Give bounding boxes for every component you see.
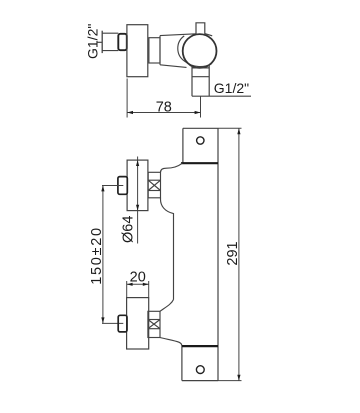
knob back rim arc	[178, 36, 212, 67]
dim Ø64 line	[137, 157, 139, 244]
svg-text:Ø64: Ø64	[121, 216, 137, 243]
lower knob cap	[118, 315, 127, 332]
dim 78 arrow left	[127, 111, 133, 114]
dim 150±20 arrow bottom	[101, 317, 104, 323]
top knob cap	[118, 177, 127, 195]
body profile tab to top connector	[161, 163, 183, 172]
svg-text:78: 78	[156, 100, 172, 116]
body collar	[149, 38, 160, 63]
bar top edge	[183, 127, 218, 129]
dim 78 extension right	[200, 97, 202, 118]
lower tab top shadow edge	[182, 345, 218, 347]
dim 78 extension left	[126, 79, 128, 118]
inlet port square P1	[102, 31, 118, 53]
svg-text:G1/2": G1/2"	[85, 24, 101, 59]
dim Ø64 arrow bottom	[136, 205, 139, 211]
body profile top connector to bar	[161, 198, 174, 300]
top union connector box	[148, 172, 160, 198]
inlet flange nut	[118, 34, 127, 50]
top mounting tab left edge	[182, 128, 184, 163]
body profile lower connector to tab	[160, 338, 182, 347]
dim 20 arrow right	[143, 283, 149, 286]
lower screw hole	[196, 366, 204, 374]
lower tab left edge	[181, 346, 183, 381]
top screw hole	[197, 137, 204, 144]
dim 150±20 extension bottom	[102, 322, 123, 324]
cone base line	[159, 36, 161, 65]
cone bottom line	[160, 65, 187, 68]
body profile bar to lower connector	[160, 300, 174, 312]
handle stem	[196, 23, 205, 34]
dim 20 extension right	[148, 281, 150, 297]
knob front circle	[183, 34, 217, 68]
lower tab bottom edge	[182, 380, 218, 382]
dim 78 arrow right	[195, 111, 201, 114]
svg-text:G1/2": G1/2"	[214, 80, 249, 96]
label G1/2" outlet underline leader	[192, 95, 251, 97]
dim 150±20 arrow top	[101, 186, 104, 192]
dim 20 arrow left	[127, 283, 133, 286]
dim 20 extension left	[126, 281, 128, 297]
dim 291 line	[238, 128, 240, 380]
stem chamfer	[205, 34, 212, 36]
lower union connector box	[148, 311, 160, 337]
dim 150±20 line	[102, 186, 104, 324]
svg-text:150±20: 150±20	[89, 226, 105, 284]
svg-text:20: 20	[130, 270, 146, 286]
top connector X mark	[148, 180, 160, 190]
inlet axis stub	[97, 41, 102, 43]
lower knob	[127, 298, 149, 349]
outlet pipe	[192, 65, 209, 97]
dim 78 line	[127, 112, 200, 114]
dim 291 extension bottom	[218, 380, 242, 382]
dim 291 arrow bottom	[237, 375, 240, 381]
dim 150±20 extension top	[102, 185, 123, 187]
dim Ø64 arrow top	[136, 160, 139, 166]
wall plate (side view)	[127, 25, 148, 77]
lower connector X mark	[148, 320, 160, 329]
svg-text:291: 291	[225, 241, 241, 265]
top knob (Ø64)	[127, 160, 148, 211]
cone top line	[160, 34, 196, 36]
bar right edge	[217, 128, 219, 380]
dim 20 line	[127, 283, 149, 285]
top tab bottom shadow edge	[181, 162, 218, 164]
dim 291 extension top	[218, 127, 242, 129]
dim 291 arrow top	[237, 128, 240, 134]
